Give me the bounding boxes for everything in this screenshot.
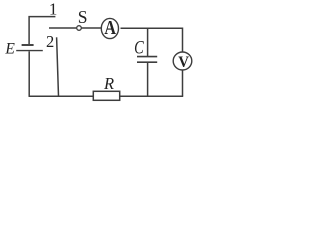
- wire: switch throw 2 slanted line down to bottom rail: [57, 37, 59, 96]
- svg-text:C: C: [134, 37, 144, 58]
- battery E short plate: [22, 44, 34, 46]
- capacitor C bottom plate: [137, 61, 157, 63]
- svg-text:R: R: [103, 74, 114, 93]
- switch S pivot circle: [77, 26, 82, 31]
- wire: bottom rail right of resistor: [120, 95, 184, 97]
- wire: switch lever from tip to pivot: [49, 27, 76, 29]
- wire: right side vertical below voltmeter: [182, 70, 184, 97]
- svg-text:V: V: [178, 54, 189, 72]
- wire: contact 1 line, top-left corner, battery top lead: [29, 17, 55, 44]
- svg-text:1: 1: [49, 0, 58, 19]
- svg-text:2: 2: [46, 32, 54, 51]
- wire: capacitor top lead: [147, 28, 149, 56]
- capacitor C top plate: [137, 56, 157, 58]
- resistor R box: [93, 91, 119, 100]
- wire: capacitor bottom lead: [147, 63, 149, 96]
- battery E long plate: [16, 50, 43, 52]
- ammeter A circle: [101, 18, 118, 38]
- svg-text:A: A: [104, 16, 116, 38]
- wire: bottom rail left of resistor: [29, 95, 94, 97]
- svg-text:E: E: [4, 41, 15, 58]
- voltmeter V circle: [173, 52, 192, 70]
- wire: battery bottom lead down the left side: [28, 51, 30, 96]
- wire: right side vertical above voltmeter, top-right corner: [121, 28, 183, 52]
- svg-text:S: S: [78, 7, 88, 27]
- wire: pivot to ammeter: [81, 27, 101, 29]
